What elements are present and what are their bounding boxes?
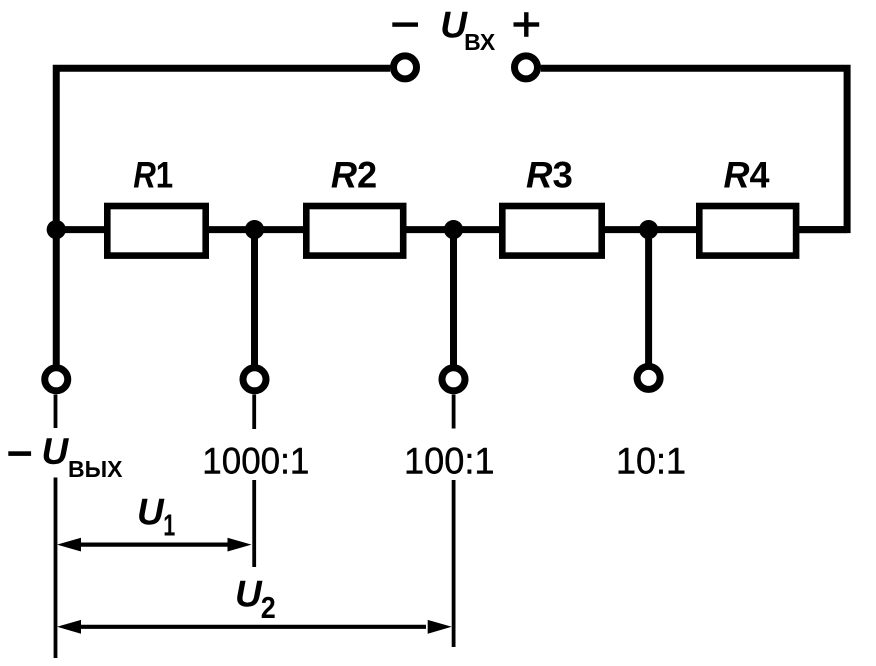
svg-text:10:1: 10:1 [616,441,686,482]
wire: extension line col2 upper [252,395,256,430]
svg-text:1: 1 [163,508,175,543]
node C (R2-R3 junction dot) [444,220,463,239]
resistor R3 [502,206,601,256]
wire: extension line col3 lower [452,480,456,647]
wire: extension line col3 upper [452,395,456,429]
resistor R1 [107,206,205,256]
svg-text:1000:1: 1000:1 [202,441,309,482]
wire: extension line col2 lower [252,480,256,567]
wire: stub node B down [251,230,258,365]
node B (R1-R2 junction dot) [245,220,264,239]
label: minus sign of Uvyh [8,451,31,456]
terminal: input left (minus) [394,56,417,79]
wire: stub node D down [645,230,652,365]
wire: main resistor-row horizontal [56,226,847,233]
terminal: output tap 1000:1 [243,368,266,391]
svg-text:U: U [42,431,70,472]
svg-text:ВЫХ: ВЫХ [68,456,123,482]
label: minus sign of Uvx [392,22,418,26]
resistor R2 [306,206,403,256]
wire: top-right (from right input terminal to right vertical down to R4) [541,68,847,229]
label: plus sign of Uvx [514,22,540,26]
svg-text:U: U [137,491,165,532]
wire: extension line col1 upper [54,395,58,429]
svg-text:100:1: 100:1 [404,441,495,482]
node A (left end junction dot) [47,220,66,239]
terminal: output tap 1 (Uvyh) [45,368,68,391]
terminal: input right (plus) [515,56,538,79]
terminal: output tap 10:1 [637,366,660,389]
svg-text:R2: R2 [331,154,377,195]
node D (R3-R4 junction dot) [639,220,658,239]
svg-text:ВХ: ВХ [464,29,496,55]
svg-text:R4: R4 [724,154,770,195]
dimension arrow U2 [78,625,426,629]
wire: stub node C down [450,230,457,365]
wire: extension line col1 lower [54,478,58,659]
terminal: output tap 100:1 [442,368,465,391]
svg-text:R3: R3 [526,154,573,195]
svg-text:R1: R1 [133,154,173,195]
resistor R4 [699,206,796,256]
svg-text:2: 2 [261,590,276,625]
dimension arrow U1 [78,542,231,546]
wire: top-left L (left vertical + top horizontal to left input terminal) [56,68,390,364]
svg-text:U: U [235,574,263,615]
